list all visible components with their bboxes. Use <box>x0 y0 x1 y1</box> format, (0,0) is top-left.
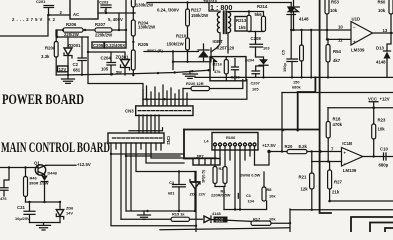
resistor R204 <box>131 20 156 50</box>
wire CN2 pin9 <box>151 143 216 158</box>
svg-text:C21: C21 <box>17 205 25 210</box>
node VCC +12V <box>368 96 390 107</box>
svg-text:150k/2W: 150k/2W <box>191 13 209 18</box>
svg-text:12V: 12V <box>59 67 67 72</box>
svg-text:5W: 5W <box>116 70 122 75</box>
svg-text:D448: D448 <box>48 170 58 175</box>
svg-text:D204: D204 <box>245 57 255 62</box>
R106 pins <box>214 143 257 150</box>
wire board link cables <box>139 115 159 133</box>
svg-text:103: 103 <box>263 46 270 51</box>
resistor R53 <box>325 0 339 30</box>
wire feedback path <box>298 77 316 130</box>
svg-text:4148: 4148 <box>299 17 309 22</box>
resistor R18 <box>326 108 342 163</box>
connector CN2 <box>108 133 171 145</box>
svg-text:11: 11 <box>338 37 343 42</box>
wire CN2 pin3 <box>120 143 122 219</box>
wire board box edge <box>184 130 193 159</box>
svg-text:21k: 21k <box>332 189 340 194</box>
svg-text:AC: AC <box>73 12 79 17</box>
capacitor C2 681 <box>73 37 87 75</box>
svg-text:ZD301: ZD301 <box>116 54 130 59</box>
resistor R213 <box>235 10 251 31</box>
svg-text:R60: R60 <box>378 0 386 4</box>
wire rail y92 <box>282 92 393 94</box>
svg-text:C204: C204 <box>101 55 112 60</box>
wire CN2 pin7 <box>140 143 142 149</box>
svg-text:U1D: U1D <box>352 16 361 21</box>
resistor R17 <box>251 216 291 225</box>
wire AC box pin 4 output <box>98 12 135 14</box>
wire ground rail CN2 <box>126 210 195 212</box>
wire CN2 pin4 <box>125 143 127 211</box>
wire CN2 pin11 <box>160 143 162 150</box>
svg-text:0.22/400X: 0.22/400X <box>106 43 126 48</box>
ground main board <box>138 211 151 219</box>
svg-text:680p: 680p <box>379 163 389 168</box>
capacitor C208 <box>250 32 270 56</box>
wire right edge drop <box>289 209 291 232</box>
wire CN stub <box>129 128 163 131</box>
svg-text:14V: 14V <box>66 210 73 215</box>
snubber box <box>210 57 246 81</box>
svg-text:3.3k: 3.3k <box>41 54 50 59</box>
svg-text:ZD001: ZD001 <box>68 43 82 48</box>
svg-text:220R/0.5W: 220R/0.5W <box>211 193 231 198</box>
svg-text:2W08 0.5W: 2W08 0.5W <box>240 172 261 177</box>
svg-text:10µ/25V: 10µ/25V <box>15 216 30 221</box>
svg-text:681: 681 <box>168 190 175 195</box>
wire sense lines right <box>111 154 184 156</box>
wire rail A ground rail <box>56 70 210 75</box>
svg-text:13: 13 <box>383 28 388 33</box>
wire hysteresis drop <box>310 30 312 77</box>
svg-text:4k7: 4k7 <box>333 58 341 63</box>
resistor R27 <box>328 162 343 203</box>
wire mains input X2 <box>0 15 48 36</box>
svg-text:4148: 4148 <box>376 59 386 64</box>
capacitor C203 <box>99 0 111 14</box>
box bottom right outer <box>351 217 393 232</box>
IC R106 resistor network <box>204 133 258 151</box>
resistor R203 <box>131 0 154 20</box>
svg-text:R20: R20 <box>285 144 293 149</box>
capacitor C21 <box>15 202 35 223</box>
resistor R21 <box>299 152 315 210</box>
wire JP7 drop long <box>195 172 197 233</box>
wire harness above CN3 <box>143 85 187 99</box>
svg-text:R21: R21 <box>299 174 307 179</box>
resistor Ra 220R <box>201 166 225 187</box>
svg-text:8.2k: 8.2k <box>299 144 308 149</box>
resistor R208 <box>41 37 58 75</box>
svg-text:R205: R205 <box>138 42 149 47</box>
svg-text:POWER BOARD: POWER BOARD <box>2 92 84 108</box>
resistor R46 <box>24 168 49 203</box>
resistor R216 <box>213 57 229 81</box>
svg-text:R53: R53 <box>331 0 339 4</box>
diode D13 <box>376 33 391 77</box>
op-amp U1D <box>338 16 393 52</box>
wire C202 drop <box>125 0 127 42</box>
svg-text:10k: 10k <box>378 126 386 131</box>
resistor R220 <box>183 80 243 91</box>
resistor R206 <box>62 22 95 37</box>
resistor R210 <box>167 33 190 63</box>
wire to AC box pin 2 <box>48 14 70 16</box>
svg-text:5k6: 5k6 <box>255 12 263 17</box>
svg-text:CN3: CN3 <box>125 109 134 114</box>
svg-text:C10: C10 <box>380 146 388 151</box>
svg-text:R23: R23 <box>378 117 386 122</box>
svg-text:680k: 680k <box>292 85 301 90</box>
wire CN2 pin8 <box>146 143 184 163</box>
resistor R60 <box>378 0 393 33</box>
resistor R8 <box>262 172 276 201</box>
resistor R214 <box>249 4 268 32</box>
svg-text:C5: C5 <box>281 49 286 55</box>
diode D12 4148 <box>288 0 309 31</box>
wire CN2 pin10 <box>155 143 157 150</box>
svg-text:0.24, /300V: 0.24, /300V <box>157 7 179 12</box>
capacitor C205 label <box>92 42 126 48</box>
wire feed R206 from mains <box>56 30 63 36</box>
wire emitter <box>173 52 214 71</box>
diode D204 <box>245 55 268 79</box>
ground power board left <box>62 75 75 84</box>
svg-text:5R61 (R): 5R61 (R) <box>147 48 163 53</box>
svg-text:LM139: LM139 <box>343 168 357 173</box>
resistor R55 680k <box>292 30 303 90</box>
wire bottom center <box>224 201 267 210</box>
svg-text:104: 104 <box>248 199 255 204</box>
resistor R19 1k <box>121 212 203 222</box>
diode D448 <box>41 170 57 203</box>
capacitor C206 <box>231 59 241 81</box>
svg-text:130k/2W: 130k/2W <box>138 25 156 30</box>
ground power board right <box>183 71 198 78</box>
wire zener row <box>26 201 61 203</box>
transistor Q1 <box>0 160 76 175</box>
svg-text:R220 12R: R220 12R <box>186 81 204 86</box>
svg-text:C201: C201 <box>36 0 46 4</box>
node +17.5V <box>255 143 276 165</box>
wire bottom rail <box>160 228 290 230</box>
wire rail into box <box>209 69 211 71</box>
connector CN3 power board <box>125 106 193 116</box>
svg-text:390R 1/2W: 390R 1/2W <box>29 181 49 186</box>
connector JP7 <box>193 154 220 165</box>
zener ZD6 14V <box>56 202 74 223</box>
wire harness stubs to CN3 <box>143 99 187 106</box>
box bottom right inner <box>370 223 393 233</box>
svg-text:IC1B: IC1B <box>342 141 352 146</box>
wire comparator minus line <box>291 29 351 31</box>
zener ZD001 <box>64 37 81 75</box>
svg-text:1R(0.5): 1R(0.5) <box>201 169 206 183</box>
resistor R217 <box>186 3 210 39</box>
svg-text:5, 400V: 5, 400V <box>108 17 123 22</box>
capacitor C201 <box>36 0 54 16</box>
diode D2 4148 <box>204 211 251 223</box>
diode D206 <box>287 3 295 59</box>
op-amp IC1B <box>312 141 393 173</box>
svg-text:130k/2W: 130k/2W <box>136 3 154 8</box>
svg-text:R207: R207 <box>95 22 106 27</box>
svg-text:R8: R8 <box>267 187 273 192</box>
svg-text:10: 10 <box>338 24 343 29</box>
svg-text:105: 105 <box>252 87 259 92</box>
resistor R23 <box>372 108 386 158</box>
svg-text:C1: C1 <box>246 193 252 198</box>
svg-text:470k: 470k <box>333 122 343 127</box>
svg-text:12k: 12k <box>301 186 309 191</box>
wire gate drive <box>144 51 199 53</box>
wire main feed y130 <box>184 129 320 131</box>
wire bottom left ground <box>30 223 61 231</box>
wire collector sense <box>187 80 247 100</box>
wire 400V drop to R206 string <box>118 13 120 30</box>
svg-text:+12V: +12V <box>380 96 390 101</box>
wire CN2 pin1 <box>111 143 196 226</box>
transistor IGBT K25T120 <box>211 39 235 62</box>
svg-text:476: 476 <box>0 196 7 201</box>
wire top rail <box>147 2 291 4</box>
svg-text:10k: 10k <box>378 8 386 13</box>
wire CN2 pin2 <box>115 143 117 149</box>
resistor R205 <box>131 42 163 76</box>
svg-text:C203: C203 <box>99 0 109 4</box>
zener ZD301 <box>87 51 130 75</box>
resistor R207 <box>95 22 127 38</box>
svg-text:R213: R213 <box>236 18 247 23</box>
transformer T201 1:800 <box>203 0 249 53</box>
svg-text:R217: R217 <box>191 7 202 12</box>
wire zener cluster top <box>57 30 88 37</box>
svg-text:220k/2W: 220k/2W <box>95 33 113 38</box>
svg-text:LM339: LM339 <box>351 47 365 52</box>
wire R27 bottom rail <box>330 200 393 202</box>
capacitor C4 <box>168 172 185 212</box>
wire rail B <box>88 37 143 106</box>
wire comparator plus line <box>327 30 351 39</box>
wire rail C <box>195 76 393 78</box>
svg-text:+17.5V: +17.5V <box>262 143 276 148</box>
wire CN2 pin5 <box>130 143 132 211</box>
svg-text:22V: 22V <box>199 192 206 197</box>
diode anti-parallel IGBT <box>198 44 209 62</box>
capacitor C1 <box>238 193 255 203</box>
svg-text:681: 681 <box>73 68 81 73</box>
svg-text:C2: C2 <box>73 62 79 67</box>
svg-text:R18: R18 <box>333 116 341 121</box>
svg-text:C207: C207 <box>251 81 260 86</box>
svg-text:D13: D13 <box>376 45 384 50</box>
wire R106 pin drops <box>215 150 255 167</box>
svg-text:150k/2W: 150k/2W <box>167 41 185 46</box>
svg-text:R54: R54 <box>333 49 341 54</box>
svg-text:4148: 4148 <box>212 211 221 216</box>
svg-text:47k: 47k <box>214 69 221 74</box>
resistor Rb 220R <box>211 167 231 210</box>
svg-text:C205: C205 <box>93 43 104 48</box>
svg-text:R214: R214 <box>257 4 268 9</box>
svg-text:VCC: VCC <box>368 96 377 101</box>
svg-text:R206: R206 <box>66 22 77 27</box>
svg-text:K25T120: K25T120 <box>217 46 235 51</box>
node 12V label <box>58 66 69 72</box>
svg-text:R106: R106 <box>226 135 236 140</box>
svg-text:R27: R27 <box>334 179 342 184</box>
capacitor C22 left edge <box>0 168 9 202</box>
svg-text:R210: R210 <box>176 33 187 38</box>
box bottom right innermost <box>385 228 393 232</box>
resistor R54 <box>326 38 341 77</box>
bridge rectifier AC box <box>70 0 98 19</box>
wire bottom left rail <box>290 209 393 211</box>
svg-text:CN2: CN2 <box>166 136 171 145</box>
wire CN2 pin6 <box>136 143 196 172</box>
resistor R20 <box>269 144 342 154</box>
svg-text:R216: R216 <box>213 62 223 67</box>
svg-text:+12.5V: +12.5V <box>77 162 91 167</box>
svg-text:105: 105 <box>101 67 109 72</box>
capacitor C204 <box>101 52 116 75</box>
svg-text:1k5: 1k5 <box>239 25 247 30</box>
wire pin drops long <box>235 150 240 210</box>
svg-text:R19 1k: R19 1k <box>172 212 185 217</box>
wire bus vertical <box>320 0 331 213</box>
svg-text:10k: 10k <box>330 8 338 13</box>
svg-text:150p: 150p <box>282 63 287 72</box>
zener ZD6 22V <box>190 172 206 212</box>
capacitor C5 150p <box>281 49 298 78</box>
capacitor C207 <box>251 66 264 92</box>
svg-text:IGBT: IGBT <box>213 39 224 44</box>
wire VCC rail <box>328 107 393 109</box>
svg-text:10k: 10k <box>269 194 276 199</box>
svg-text:MAIN CONTROL BOARD: MAIN CONTROL BOARD <box>1 140 110 156</box>
wire harness bus <box>143 98 187 100</box>
capacitor C10 <box>379 146 389 167</box>
